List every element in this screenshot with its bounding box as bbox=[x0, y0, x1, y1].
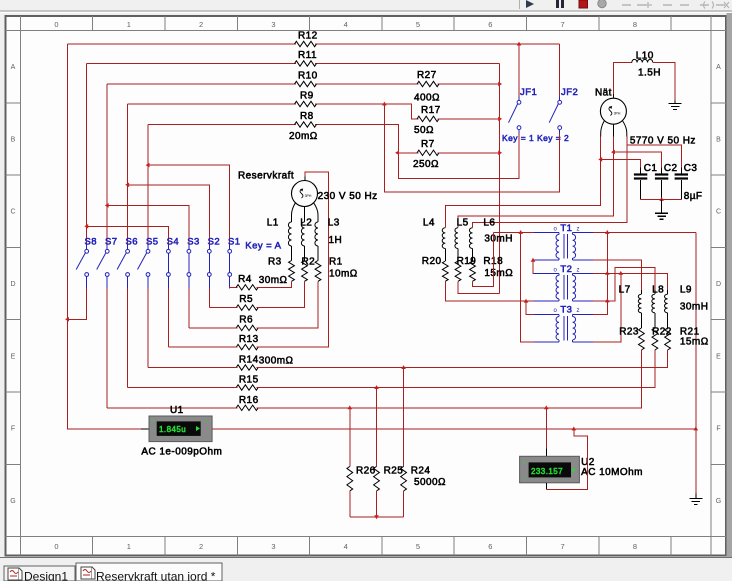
switch JF2 bbox=[558, 100, 562, 104]
transformer T1 bbox=[534, 231, 559, 233]
svg-text:233.157: 233.157 bbox=[531, 467, 563, 476]
wire S7 bottom to R16 row bbox=[106, 289, 108, 408]
source legs to L1 L2 L3 bbox=[292, 203, 296, 222]
toolbar icons (partial) bbox=[519, 0, 521, 9]
svg-text:3: 3 bbox=[271, 20, 275, 29]
wire S7 feed from R10 bbox=[106, 84, 108, 245]
svg-text:JF2: JF2 bbox=[561, 87, 578, 98]
wire R14 row to R21 bbox=[148, 367, 238, 369]
svg-text:L6: L6 bbox=[483, 218, 495, 229]
svg-text:E: E bbox=[11, 353, 16, 360]
capacitor C2 bbox=[661, 168, 663, 174]
svg-text:R17: R17 bbox=[421, 105, 441, 116]
svg-text:B: B bbox=[11, 136, 16, 143]
wire primary left bus bbox=[521, 232, 534, 341]
wire L10 to ground bbox=[653, 63, 675, 101]
wire L to R connections bbox=[291, 246, 293, 261]
svg-text:L5: L5 bbox=[457, 218, 469, 229]
svg-text:T3: T3 bbox=[560, 305, 572, 316]
resistor R8 bbox=[295, 122, 317, 127]
wire S5 feed from R8 bbox=[147, 125, 149, 245]
svg-text:E: E bbox=[716, 353, 721, 360]
wire C1 feed row bbox=[601, 159, 641, 167]
switch S6 bbox=[126, 249, 130, 253]
ground (right bus) bbox=[695, 494, 697, 499]
svg-text:R5: R5 bbox=[239, 294, 253, 305]
resistor R5 bbox=[236, 305, 258, 310]
tab Reservkraft utan jord * bbox=[81, 567, 92, 579]
wire JF1 top feed bbox=[518, 44, 520, 97]
wire T2 secondary bottom to L8 bbox=[593, 267, 655, 301]
svg-text:A: A bbox=[716, 64, 721, 71]
wire C2 feed row bbox=[613, 152, 661, 167]
source Reservkraft (3-phase) bbox=[292, 181, 318, 207]
transformer T3 bbox=[534, 314, 559, 316]
svg-text:15mΩ: 15mΩ bbox=[680, 337, 709, 348]
wire T1 secondary top row to right bus bbox=[593, 231, 696, 233]
wire R8 row bbox=[148, 124, 296, 126]
svg-text:L7: L7 bbox=[619, 285, 631, 296]
resistor R4 bbox=[236, 285, 258, 290]
svg-text:Key = 1: Key = 1 bbox=[502, 133, 534, 143]
wire row S8-S4 bbox=[87, 226, 169, 244]
wire capacitor bottom bus bbox=[641, 198, 682, 200]
inductor L8 bbox=[654, 290, 656, 294]
svg-text:AC 10MOhm: AC 10MOhm bbox=[581, 467, 643, 478]
window bottom strip and tab bar bbox=[0, 557, 732, 559]
svg-text:Design1: Design1 bbox=[24, 570, 68, 581]
svg-text:6: 6 bbox=[488, 542, 492, 551]
svg-text:230 V 50 Hz: 230 V 50 Hz bbox=[318, 191, 378, 202]
resistor R14 bbox=[236, 365, 258, 370]
svg-text:Nät: Nät bbox=[595, 88, 612, 99]
wire R20 bottom to T2/T3 link bbox=[445, 281, 526, 301]
svg-text:C1: C1 bbox=[644, 163, 658, 174]
svg-text:8: 8 bbox=[633, 20, 637, 29]
svg-text:z: z bbox=[577, 308, 580, 314]
wire R18 bottom to T1 primary feed bbox=[473, 232, 494, 286]
resistor R13 bbox=[236, 344, 258, 349]
wire Nät mid leg to L5 row bbox=[458, 137, 613, 228]
svg-text:50Ω: 50Ω bbox=[414, 125, 434, 136]
resistor R7 bbox=[417, 150, 439, 155]
svg-text:3: 3 bbox=[271, 542, 275, 551]
wire R25 riser bbox=[376, 388, 378, 467]
svg-text:8µF: 8µF bbox=[684, 191, 703, 202]
svg-text:S2: S2 bbox=[208, 236, 221, 247]
svg-text:A: A bbox=[11, 64, 16, 71]
wire S3 bottom to R6 row bbox=[188, 289, 190, 328]
wire R16 row to R23 bbox=[107, 407, 238, 409]
svg-text:3PH: 3PH bbox=[305, 194, 312, 198]
wire bottom bus U1 to right bbox=[212, 428, 696, 430]
multimeter U2 bbox=[520, 456, 580, 483]
svg-text:R26: R26 bbox=[356, 466, 376, 477]
svg-text:30mH: 30mH bbox=[484, 234, 512, 245]
svg-text:C2: C2 bbox=[664, 163, 678, 174]
svg-text:300mΩ: 300mΩ bbox=[259, 356, 294, 367]
resistor R25 bbox=[374, 466, 380, 491]
window right gray strip bbox=[727, 13, 732, 557]
svg-text:S3: S3 bbox=[187, 236, 200, 247]
svg-text:2: 2 bbox=[199, 20, 203, 29]
svg-text:D: D bbox=[10, 281, 15, 288]
wire T1 primary top feed bbox=[493, 231, 534, 233]
svg-text:4: 4 bbox=[344, 542, 348, 551]
capacitor C1 bbox=[640, 168, 642, 174]
svg-text:L8: L8 bbox=[652, 285, 664, 296]
wire T3 secondary bottom to L9 node bbox=[593, 273, 621, 342]
svg-text:400Ω: 400Ω bbox=[414, 93, 440, 104]
svg-text:B: B bbox=[716, 136, 721, 143]
svg-text:Reservkraft utan jord *: Reservkraft utan jord * bbox=[96, 570, 216, 581]
svg-text:7: 7 bbox=[561, 542, 565, 551]
wire L-R links bbox=[444, 249, 446, 262]
switch S8 bbox=[85, 249, 89, 253]
switch S4 bbox=[167, 249, 171, 253]
svg-text:5: 5 bbox=[416, 542, 420, 551]
wire T1 secondary bottom to L7 bbox=[593, 260, 641, 290]
wire Nät top stub bbox=[612, 94, 614, 98]
wire S5 bottom to R14 row bbox=[147, 289, 149, 368]
wire Nät right leg to L6 row bbox=[473, 137, 627, 228]
svg-text:R9: R9 bbox=[300, 91, 314, 102]
switch S5 bbox=[146, 249, 150, 253]
svg-text:S1: S1 bbox=[228, 236, 241, 247]
inductor L10 bbox=[632, 59, 653, 62]
multimeter U1 bbox=[141, 428, 149, 430]
svg-text:z: z bbox=[577, 268, 580, 274]
svg-text:R23: R23 bbox=[619, 327, 639, 338]
svg-text:R12: R12 bbox=[298, 31, 318, 42]
svg-text:15mΩ: 15mΩ bbox=[484, 268, 513, 279]
svg-text:R11: R11 bbox=[298, 50, 317, 61]
svg-text:F: F bbox=[11, 426, 15, 433]
resistor R24 bbox=[401, 466, 407, 491]
svg-text:R16: R16 bbox=[239, 395, 259, 406]
svg-text:JF1: JF1 bbox=[520, 87, 537, 98]
svg-text:1H: 1H bbox=[329, 235, 343, 246]
svg-text:D: D bbox=[716, 281, 721, 288]
svg-text:G: G bbox=[716, 498, 721, 505]
resistor R21 bbox=[667, 313, 669, 328]
svg-text:R14: R14 bbox=[239, 355, 259, 366]
svg-text:1.845u: 1.845u bbox=[159, 425, 186, 434]
inductor L9 bbox=[667, 290, 669, 294]
svg-text:L2: L2 bbox=[300, 218, 312, 229]
wire S8 feed from R11 bbox=[86, 64, 88, 245]
svg-text:Key = 2: Key = 2 bbox=[537, 133, 569, 143]
svg-text:L1: L1 bbox=[267, 218, 279, 229]
wire S6 feed from R9 bbox=[127, 104, 129, 245]
svg-text:R1: R1 bbox=[329, 257, 343, 268]
wire R5 row bbox=[209, 307, 237, 309]
svg-text:S6: S6 bbox=[126, 236, 139, 247]
svg-text:S5: S5 bbox=[146, 236, 159, 247]
wire R12 row bbox=[68, 43, 297, 45]
inductor L7 bbox=[640, 290, 642, 294]
svg-text:G: G bbox=[10, 498, 15, 505]
wire R10-R27 row bbox=[107, 83, 296, 85]
inductor L4 bbox=[442, 228, 445, 249]
svg-text:z: z bbox=[577, 227, 580, 233]
svg-text:20mΩ: 20mΩ bbox=[289, 131, 318, 142]
wire U2 bottom loop to bus bbox=[545, 483, 547, 490]
wire S2 bottom to R5 row bbox=[208, 289, 210, 308]
resistor R3 bbox=[289, 261, 295, 282]
svg-text:6: 6 bbox=[488, 20, 492, 29]
svg-text:T2: T2 bbox=[560, 264, 572, 275]
source Nät legs bbox=[601, 120, 605, 136]
svg-text:0: 0 bbox=[54, 542, 58, 551]
wire S1 bottom to R4 row bbox=[230, 287, 238, 288]
wire S4 bottom to R13 row bbox=[167, 289, 169, 347]
svg-text:4: 4 bbox=[344, 20, 348, 29]
inductor L2 bbox=[301, 222, 304, 246]
resistor R19 bbox=[455, 261, 461, 281]
wire node column x=499.7 (R11/R27/R17/R7 to R19) bbox=[499, 64, 501, 294]
capacitor C3 bbox=[680, 168, 682, 174]
resistor R11 bbox=[295, 61, 317, 66]
svg-text:R8: R8 bbox=[300, 111, 314, 122]
resistor R10 bbox=[295, 81, 317, 86]
switch S3 bbox=[187, 249, 191, 253]
resistor R6 bbox=[236, 325, 258, 330]
svg-text:F: F bbox=[716, 426, 720, 433]
wire R4 to R3 bottom bbox=[257, 281, 292, 287]
resistor R26 bbox=[347, 466, 353, 491]
svg-text:8: 8 bbox=[633, 542, 637, 551]
wire C3 feed row bbox=[627, 145, 682, 167]
wire R7 row bbox=[398, 152, 418, 154]
svg-text:L10: L10 bbox=[636, 51, 654, 62]
wire R15 row to R22 bbox=[128, 387, 238, 389]
wire JF2 bottom to R9 node bbox=[384, 104, 559, 192]
wire secondary chain column bbox=[593, 232, 607, 314]
svg-text:S8: S8 bbox=[85, 236, 98, 247]
svg-text:C3: C3 bbox=[684, 163, 698, 174]
inductor L5 bbox=[455, 228, 458, 249]
resistor R12 bbox=[295, 41, 317, 46]
svg-text:R25: R25 bbox=[384, 466, 404, 477]
resistor R2 bbox=[302, 261, 308, 282]
sheet inner frame bbox=[20, 16, 22, 556]
wire T2-T3 primary link bbox=[526, 301, 534, 315]
svg-text:T1: T1 bbox=[560, 223, 572, 234]
switch S1 bbox=[228, 249, 232, 253]
svg-text:10mΩ: 10mΩ bbox=[329, 269, 358, 280]
inductor L6 bbox=[469, 228, 472, 249]
ground (capacitors) bbox=[661, 199, 663, 213]
resistor R20 bbox=[442, 261, 448, 281]
wire R11 row bbox=[87, 63, 296, 65]
wire T1-T2 primary link bbox=[533, 260, 534, 273]
svg-text:R15: R15 bbox=[239, 375, 259, 386]
svg-text:L9: L9 bbox=[680, 285, 692, 296]
resistor R23 bbox=[640, 313, 642, 328]
svg-text:S4: S4 bbox=[167, 236, 180, 247]
wire Nät left leg to L4 row bbox=[445, 137, 600, 228]
wire S8 bottom to left bus bbox=[68, 289, 87, 320]
svg-text:R7: R7 bbox=[421, 139, 435, 150]
inductor L3 bbox=[315, 222, 318, 246]
resistor R22 bbox=[654, 313, 656, 328]
wire row S6-S2 bbox=[128, 185, 210, 245]
svg-text:R6: R6 bbox=[239, 315, 253, 326]
wire row S5-S1 bbox=[148, 165, 230, 245]
resistor R17 bbox=[417, 116, 439, 121]
resistor R9 bbox=[295, 101, 317, 106]
svg-text:+: + bbox=[522, 461, 526, 467]
svg-text:+: + bbox=[152, 419, 156, 425]
wire R26 riser bbox=[349, 408, 351, 467]
ruler ticks and labels bbox=[92, 16, 94, 31]
svg-text:Reservkraft: Reservkraft bbox=[238, 171, 294, 182]
wire U2 top riser bbox=[545, 408, 547, 449]
transformer T2 bbox=[534, 272, 559, 274]
svg-text:30mΩ: 30mΩ bbox=[259, 275, 288, 286]
wire R9 row bbox=[128, 103, 296, 105]
svg-text:C: C bbox=[716, 209, 721, 216]
resistor R18 bbox=[470, 261, 476, 281]
wire left bus from R12 to U1 bbox=[68, 44, 150, 429]
svg-text:R24: R24 bbox=[411, 466, 431, 477]
svg-text:Key = A: Key = A bbox=[245, 241, 281, 252]
wire R13 row bbox=[168, 346, 237, 348]
source Nät (3-phase) bbox=[600, 98, 626, 124]
svg-text:S7: S7 bbox=[105, 236, 118, 247]
resistor R15 bbox=[236, 385, 258, 390]
svg-text:R27: R27 bbox=[417, 70, 437, 81]
svg-text:R4: R4 bbox=[238, 274, 252, 285]
svg-text:R20: R20 bbox=[422, 256, 442, 267]
svg-text:AC 1e-009pOhm: AC 1e-009pOhm bbox=[141, 447, 222, 458]
resistor R1 bbox=[315, 261, 321, 282]
svg-text:R2: R2 bbox=[302, 257, 316, 268]
svg-text:C: C bbox=[10, 209, 15, 216]
toolbar separator line bbox=[0, 10, 732, 12]
wire S6 bottom to R15 row bbox=[127, 289, 129, 388]
wire R24 riser bbox=[403, 368, 405, 467]
svg-text:U1: U1 bbox=[170, 405, 184, 416]
svg-text:7: 7 bbox=[561, 20, 565, 29]
svg-text:5000Ω: 5000Ω bbox=[414, 477, 446, 488]
switch S2 bbox=[207, 249, 211, 253]
svg-text:L3: L3 bbox=[328, 218, 340, 229]
svg-text:0: 0 bbox=[54, 20, 58, 29]
wire Nät top to L10 bbox=[613, 63, 631, 94]
wire Reservkraft top stub bbox=[304, 176, 306, 180]
svg-text:R10: R10 bbox=[298, 71, 318, 82]
svg-text:30mH: 30mH bbox=[680, 302, 708, 313]
svg-text:1.5H: 1.5H bbox=[638, 68, 661, 79]
svg-text:R3: R3 bbox=[268, 257, 282, 268]
svg-text:3PH: 3PH bbox=[614, 112, 621, 116]
wire T2 secondary top row to L9 bbox=[593, 273, 668, 290]
wire R24-R26 bottom bus bbox=[349, 491, 351, 517]
wire R6 row bbox=[189, 327, 238, 329]
svg-text:1: 1 bbox=[127, 542, 131, 551]
wire row S7-S3 bbox=[107, 205, 189, 244]
wire R19 bottom to node column bbox=[458, 281, 500, 293]
resistor R16 bbox=[236, 405, 258, 410]
switch JF1 bbox=[517, 100, 521, 104]
svg-text:5: 5 bbox=[416, 20, 420, 29]
switch S7 bbox=[105, 249, 109, 253]
wire R17 to node bbox=[438, 118, 500, 120]
inductor L1 bbox=[288, 222, 291, 246]
wire right bus down to ground bbox=[695, 232, 697, 496]
svg-text:L4: L4 bbox=[423, 218, 435, 229]
svg-text:2: 2 bbox=[199, 542, 203, 551]
svg-text:R13: R13 bbox=[239, 334, 259, 345]
svg-text:250Ω: 250Ω bbox=[413, 159, 439, 170]
wire JF2 top feed bbox=[559, 44, 561, 97]
ground (L10) bbox=[674, 101, 676, 104]
svg-text:1: 1 bbox=[127, 20, 131, 29]
resistor R27 bbox=[417, 81, 439, 86]
tab Design1 bbox=[8, 568, 19, 580]
